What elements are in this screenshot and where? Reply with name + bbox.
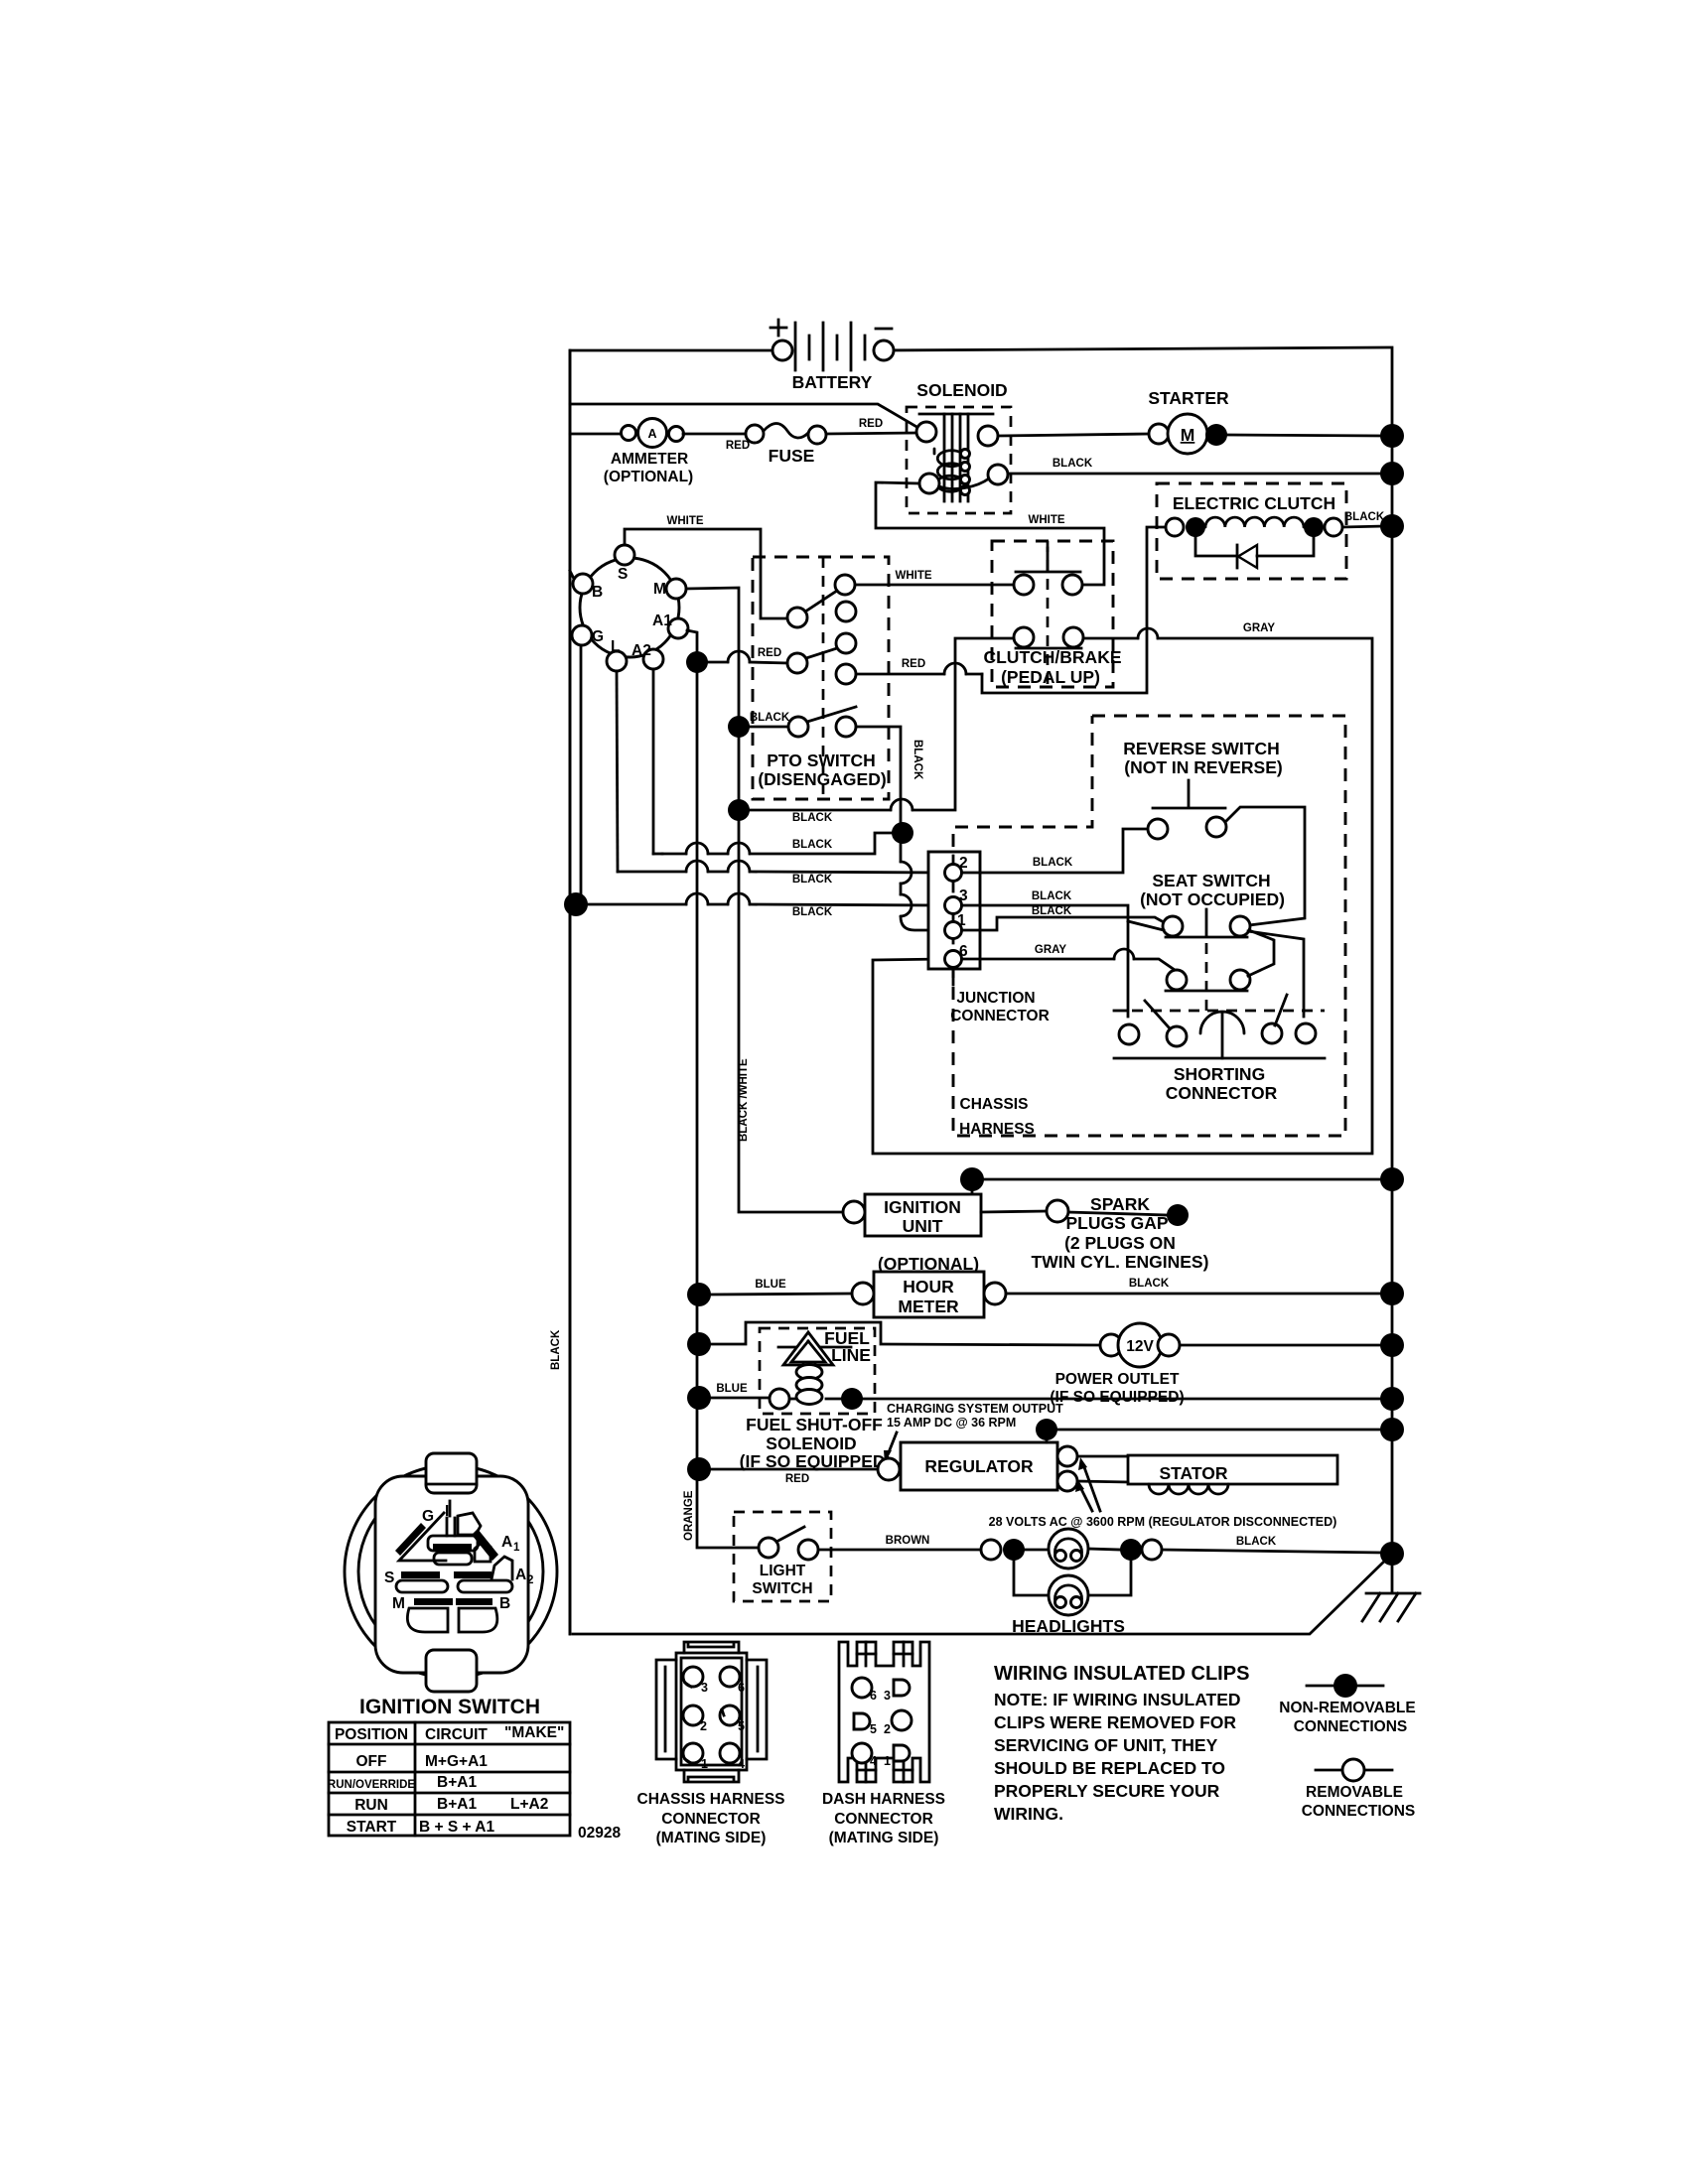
svg-text:CONNECTOR: CONNECTOR (661, 1811, 761, 1828)
svg-text:BLACK: BLACK (750, 712, 790, 724)
svg-text:BLACK: BLACK (1052, 458, 1093, 470)
svg-text:IGNITION: IGNITION (884, 1197, 961, 1217)
svg-text:METER: METER (898, 1297, 959, 1316)
svg-text:OFF: OFF (356, 1753, 387, 1770)
svg-text:WIRING INSULATED CLIPS: WIRING INSULATED CLIPS (994, 1663, 1249, 1685)
svg-text:PLUGS GAP: PLUGS GAP (1065, 1213, 1168, 1233)
svg-text:BLUE: BLUE (755, 1279, 786, 1291)
svg-text:SWITCH: SWITCH (752, 1580, 812, 1597)
svg-text:STARTER: STARTER (1148, 388, 1229, 408)
svg-text:3: 3 (701, 1681, 708, 1695)
svg-text:RUN: RUN (354, 1797, 388, 1814)
svg-text:WIRING.: WIRING. (994, 1804, 1063, 1824)
svg-text:FUEL SHUT-OFF: FUEL SHUT-OFF (746, 1415, 883, 1434)
svg-text:RED: RED (859, 418, 883, 430)
svg-text:BATTERY: BATTERY (792, 372, 873, 392)
svg-text:A: A (501, 1534, 512, 1551)
svg-text:FUSE: FUSE (769, 446, 815, 466)
svg-text:CONNECTIONS: CONNECTIONS (1294, 1718, 1408, 1735)
svg-text:A: A (515, 1567, 526, 1583)
svg-text:CIRCUIT: CIRCUIT (425, 1726, 488, 1743)
svg-text:SHORTING: SHORTING (1174, 1064, 1265, 1084)
svg-text:6: 6 (959, 943, 968, 960)
svg-text:A: A (647, 427, 656, 441)
svg-text:B: B (499, 1595, 510, 1612)
svg-text:LIGHT: LIGHT (760, 1563, 806, 1579)
svg-text:(PEDAL UP): (PEDAL UP) (1001, 667, 1100, 687)
svg-text:BLACK: BLACK (792, 812, 833, 824)
svg-text:BLACK: BLACK (550, 1329, 562, 1370)
svg-text:BLACK: BLACK (792, 906, 833, 918)
svg-text:15 AMP DC @ 36 RPM: 15 AMP DC @ 36 RPM (887, 1416, 1016, 1430)
svg-text:(NOT OCCUPIED): (NOT OCCUPIED) (1140, 889, 1285, 909)
svg-text:BLACK: BLACK (1032, 905, 1072, 917)
svg-text:SERVICING OF UNIT, THEY: SERVICING OF UNIT, THEY (994, 1735, 1218, 1755)
svg-text:BLACK: BLACK (792, 874, 833, 886)
svg-text:ORANGE: ORANGE (683, 1490, 695, 1541)
svg-text:BLACK: BLACK (1129, 1278, 1170, 1290)
svg-text:4: 4 (738, 1757, 745, 1771)
svg-text:AMMETER: AMMETER (611, 451, 688, 468)
svg-text:BLUE: BLUE (716, 1383, 748, 1395)
svg-text:(IF SO EQUIPPED): (IF SO EQUIPPED) (1050, 1389, 1184, 1406)
svg-text:A2: A2 (631, 642, 651, 659)
svg-text:BLACK: BLACK (1032, 890, 1072, 902)
svg-text:BLACK: BLACK (792, 839, 833, 851)
svg-text:RED: RED (902, 658, 925, 670)
svg-text:(MATING SIDE): (MATING SIDE) (829, 1830, 939, 1846)
svg-text:STATOR: STATOR (1159, 1463, 1227, 1483)
svg-text:(DISENGAGED): (DISENGAGED) (758, 769, 886, 789)
svg-text:DASH HARNESS: DASH HARNESS (822, 1791, 945, 1808)
svg-text:28 VOLTS AC @ 3600 RPM (REGULA: 28 VOLTS AC @ 3600 RPM (REGULATOR DISCON… (989, 1515, 1337, 1529)
svg-text:L: L (611, 638, 620, 655)
svg-text:4: 4 (870, 1754, 877, 1768)
svg-text:5: 5 (738, 1719, 745, 1733)
svg-text:UNIT: UNIT (903, 1216, 943, 1236)
svg-text:B+A1: B+A1 (437, 1796, 477, 1813)
svg-text:CONNECTOR: CONNECTOR (834, 1811, 933, 1828)
svg-text:02928: 02928 (578, 1825, 621, 1842)
svg-text:RUN/OVERRIDE: RUN/OVERRIDE (328, 1779, 416, 1791)
svg-text:S: S (618, 566, 628, 583)
svg-text:1: 1 (701, 1757, 708, 1771)
svg-text:5: 5 (870, 1722, 877, 1736)
svg-text:3: 3 (884, 1689, 891, 1703)
svg-text:A1: A1 (652, 613, 672, 629)
svg-text:M: M (1181, 425, 1195, 445)
svg-text:PTO SWITCH: PTO SWITCH (767, 751, 876, 770)
svg-text:L+A2: L+A2 (510, 1796, 548, 1813)
svg-text:(MATING SIDE): (MATING SIDE) (656, 1830, 767, 1846)
svg-text:M: M (653, 581, 666, 598)
svg-text:BLACK: BLACK (1033, 857, 1073, 869)
svg-text:POWER OUTLET: POWER OUTLET (1055, 1371, 1180, 1388)
svg-text:BLACK: BLACK (1344, 511, 1385, 523)
svg-text:2: 2 (959, 855, 968, 872)
svg-text:JUNCTION: JUNCTION (956, 990, 1035, 1007)
svg-text:RED: RED (758, 647, 781, 659)
svg-text:CHASSIS HARNESS: CHASSIS HARNESS (637, 1791, 785, 1808)
svg-text:POSITION: POSITION (335, 1726, 408, 1743)
svg-text:(NOT IN REVERSE): (NOT IN REVERSE) (1124, 757, 1282, 777)
svg-text:BROWN: BROWN (886, 1535, 930, 1547)
svg-text:(OPTIONAL): (OPTIONAL) (604, 469, 693, 485)
svg-text:BLACK: BLACK (912, 740, 923, 780)
svg-text:SOLENOID: SOLENOID (916, 380, 1007, 400)
svg-text:WHITE: WHITE (895, 570, 931, 582)
svg-text:REVERSE SWITCH: REVERSE SWITCH (1123, 739, 1280, 758)
svg-text:ELECTRIC CLUTCH: ELECTRIC CLUTCH (1173, 493, 1335, 513)
svg-text:HARNESS: HARNESS (959, 1121, 1035, 1138)
svg-text:SHOULD BE REPLACED TO: SHOULD BE REPLACED TO (994, 1758, 1225, 1778)
svg-text:GRAY: GRAY (1035, 944, 1066, 956)
svg-text:BLACK: BLACK (1236, 1536, 1277, 1548)
svg-text:BLACK /WHITE: BLACK /WHITE (738, 1058, 750, 1142)
svg-text:GRAY: GRAY (1243, 622, 1275, 634)
svg-text:IGNITION SWITCH: IGNITION SWITCH (359, 1696, 540, 1718)
svg-text:CONNECTOR: CONNECTOR (950, 1008, 1050, 1024)
svg-text:6: 6 (870, 1689, 877, 1703)
svg-text:SPARK: SPARK (1090, 1194, 1150, 1214)
svg-text:B+A1: B+A1 (437, 1774, 477, 1791)
svg-text:RED: RED (785, 1473, 809, 1485)
svg-text:6: 6 (738, 1681, 745, 1695)
svg-text:G: G (422, 1508, 434, 1525)
svg-text:REGULATOR: REGULATOR (924, 1456, 1034, 1476)
svg-text:2: 2 (700, 1719, 707, 1733)
svg-text:NON-REMOVABLE: NON-REMOVABLE (1279, 1700, 1416, 1716)
svg-text:1: 1 (513, 1542, 520, 1554)
svg-text:CLIPS WERE REMOVED FOR: CLIPS WERE REMOVED FOR (994, 1712, 1236, 1732)
svg-text:2: 2 (884, 1722, 891, 1736)
svg-text:1: 1 (884, 1754, 891, 1768)
svg-text:B: B (592, 584, 603, 601)
svg-text:REMOVABLE: REMOVABLE (1306, 1784, 1403, 1801)
svg-text:CLUTCH/BRAKE: CLUTCH/BRAKE (983, 647, 1121, 667)
svg-text:2: 2 (527, 1574, 533, 1586)
svg-text:"MAKE": "MAKE" (504, 1724, 564, 1741)
svg-text:RED: RED (726, 440, 750, 452)
svg-text:(2 PLUGS ON: (2 PLUGS ON (1064, 1233, 1176, 1253)
svg-text:HOUR: HOUR (903, 1277, 954, 1297)
svg-text:M+G+A1: M+G+A1 (425, 1753, 488, 1770)
svg-text:SEAT SWITCH: SEAT SWITCH (1152, 871, 1270, 890)
svg-text:WHITE: WHITE (666, 515, 703, 527)
svg-text:M: M (392, 1595, 405, 1612)
svg-text:WHITE: WHITE (1028, 514, 1064, 526)
svg-text:START: START (347, 1819, 397, 1836)
svg-text:PROPERLY SECURE YOUR: PROPERLY SECURE YOUR (994, 1781, 1220, 1801)
svg-text:3: 3 (959, 887, 968, 904)
svg-text:CONNECTOR: CONNECTOR (1166, 1083, 1278, 1103)
svg-text:1: 1 (957, 912, 966, 929)
svg-text:NOTE: IF WIRING INSULATED: NOTE: IF WIRING INSULATED (994, 1690, 1241, 1709)
svg-text:12V: 12V (1126, 1338, 1154, 1355)
svg-text:S: S (384, 1570, 394, 1586)
svg-text:G: G (592, 628, 604, 645)
svg-text:TWIN CYL. ENGINES): TWIN CYL. ENGINES) (1032, 1252, 1209, 1272)
svg-text:CONNECTIONS: CONNECTIONS (1302, 1803, 1416, 1820)
svg-text:SOLENOID: SOLENOID (766, 1433, 856, 1453)
svg-text:B + S + A1: B + S + A1 (419, 1819, 494, 1836)
svg-text:CHARGING SYSTEM OUTPUT: CHARGING SYSTEM OUTPUT (887, 1402, 1063, 1416)
svg-text:CHASSIS: CHASSIS (960, 1096, 1029, 1113)
